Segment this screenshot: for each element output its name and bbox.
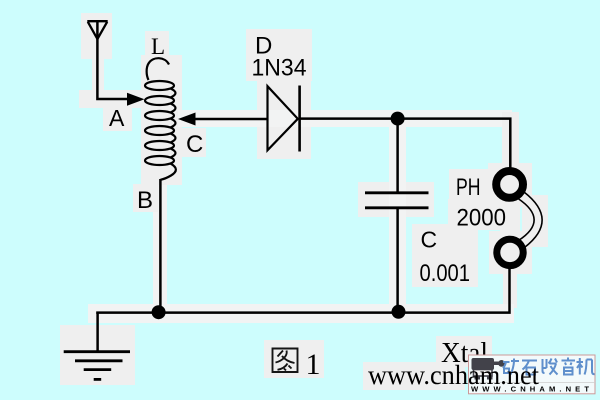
wire antenna stem [97,22,127,100]
char shou [543,359,558,375]
halo patch right wire top [502,112,519,170]
halo patch label L [145,31,169,58]
halo patch coil [141,55,182,185]
halo patch Xtal [436,336,492,367]
halo patch caption [264,340,324,378]
halo patch right wire bottom [503,266,517,308]
char shi [522,361,537,375]
logo divider [469,382,595,384]
arrow tap A [127,93,145,106]
halo patch top wire [178,110,512,127]
halo patch label PH [449,169,488,199]
halo patch label C coil [182,128,206,157]
wire coil B down [159,179,162,313]
halo patch antenna wire A [79,90,147,108]
logo text kuang shi shou yin ji [503,358,595,375]
ground bars [64,352,130,380]
char yin [562,358,576,375]
halo patch headband arcs [522,195,548,247]
coil L turns [145,58,176,180]
earphone headband arcs [518,199,534,241]
halo patch earphone top ring [488,163,532,207]
char ji [577,358,595,375]
halo patch labels D 1N34 [246,29,312,81]
svg-text:1N34: 1N34 [252,55,307,82]
node junction dot bottom mid [392,305,406,319]
svg-text:L: L [151,34,165,59]
earphone PH top ring [496,171,523,198]
ground stem [96,313,99,352]
wire coil C to diode [195,118,267,121]
halo patch antenna stem [92,36,104,98]
capacitor C plates [365,191,429,194]
svg-text:2000: 2000 [457,204,507,231]
halo patch antenna [81,13,112,59]
char kuang [503,359,519,375]
halo patch capacitor wire [389,125,406,307]
diode cathode bar [298,86,301,152]
svg-text:1: 1 [306,348,321,381]
svg-text:B: B [137,187,153,214]
logo box [469,355,596,394]
halo patch watermark [363,362,465,390]
halo patch ground [60,325,135,385]
halo patch between rings [500,205,520,233]
node junction dot top [391,112,405,126]
svg-text:A: A [109,105,125,131]
svg-text:0.001: 0.001 [420,260,471,287]
wire capacitor down [396,209,399,312]
svg-text:C: C [186,131,203,158]
halo patch wire B [153,185,167,306]
diode D1 1N34 triangle [268,86,298,150]
svg-text:www.cnham.net: www.cnham.net [368,359,539,390]
node junction dot bottom left [152,305,166,319]
halo patch diode [257,77,311,159]
logo icon radio cart [472,358,505,380]
halo patch label A [103,104,132,131]
wire node to earphone [398,119,511,168]
svg-text:C: C [421,227,438,253]
halo patch earphone bottom ring [489,231,532,274]
halo patch capacitor [358,182,434,217]
halo patch bottom wire [88,304,514,323]
halo patch label B [133,184,158,212]
wire bottom [96,268,509,313]
caption figure 1 : char tu [273,349,298,373]
wire node to capacitor [396,119,399,192]
halo patch label 2000 [448,199,512,230]
earphone PH bottom ring [497,239,523,265]
svg-text:PH: PH [456,174,481,201]
halo patch labels C 0.001 [412,224,478,287]
wire diode to node [300,117,398,120]
antenna [87,21,107,39]
arrow tap C [178,113,196,126]
